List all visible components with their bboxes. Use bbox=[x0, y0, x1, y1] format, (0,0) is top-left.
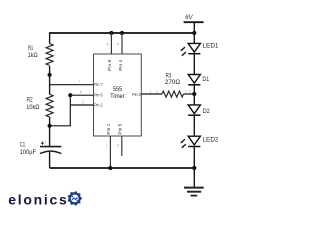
wire LED1 to D1 bbox=[193, 54, 195, 75]
svg-text:R1: R1 bbox=[28, 45, 33, 52]
svg-text:1kΩ: 1kΩ bbox=[28, 52, 38, 59]
svg-text:-: - bbox=[195, 98, 196, 102]
node junction pin8 stub bbox=[109, 31, 113, 35]
diode D1 bbox=[188, 65, 209, 93]
svg-text:Pin 1: Pin 1 bbox=[106, 123, 112, 134]
node junction pin4 stub bbox=[120, 31, 124, 35]
wire R2 to C1 bbox=[49, 117, 51, 146]
resistor R3 bbox=[150, 72, 187, 97]
pin 5 stub bbox=[117, 123, 123, 156]
svg-text:555: 555 bbox=[113, 86, 123, 93]
svg-text:-: - bbox=[41, 158, 42, 162]
node junction R3 / right column bbox=[192, 92, 196, 96]
wire pin6 bbox=[70, 94, 93, 96]
svg-text:1: 1 bbox=[156, 89, 158, 93]
wire left column top bbox=[49, 32, 51, 43]
svg-text:6: 6 bbox=[80, 90, 82, 94]
op-amp U1 555 timer box bbox=[94, 54, 142, 136]
svg-text:270Ω: 270Ω bbox=[165, 79, 180, 86]
svg-text:1: 1 bbox=[150, 89, 152, 93]
wire LED2 to bottom rail bbox=[193, 147, 195, 169]
svg-text:Pin 5: Pin 5 bbox=[118, 123, 124, 134]
LED LED1 bbox=[180, 38, 219, 57]
svg-text:8: 8 bbox=[107, 43, 109, 47]
svg-text:1: 1 bbox=[106, 144, 108, 148]
node junction top rail / power bbox=[192, 31, 196, 35]
svg-text:5: 5 bbox=[117, 144, 119, 148]
resistor R1 bbox=[28, 44, 53, 66]
svg-text:2: 2 bbox=[189, 90, 191, 94]
wire bottom rail bbox=[50, 167, 195, 169]
svg-text:D1: D1 bbox=[202, 76, 209, 83]
svg-text:Timer: Timer bbox=[110, 93, 125, 100]
svg-text:6V: 6V bbox=[185, 15, 193, 21]
diode D2 bbox=[188, 98, 210, 116]
svg-text:Pin 2: Pin 2 bbox=[94, 103, 103, 109]
svg-text:Pin 6: Pin 6 bbox=[94, 93, 103, 99]
wire D1 to D2 bbox=[193, 85, 195, 105]
pin 7 label bbox=[79, 80, 103, 89]
svg-text:R2: R2 bbox=[27, 97, 33, 104]
wire R2 junction to pin6/pin2 bbox=[50, 95, 71, 126]
wire pin7 branch bbox=[50, 84, 94, 86]
svg-text:-: - bbox=[195, 65, 196, 69]
wire C1 to bottom rail bbox=[49, 152, 51, 168]
svg-text:C1: C1 bbox=[20, 142, 26, 149]
node junction pin1 / bottom rail bbox=[108, 166, 112, 170]
svg-text:-: - bbox=[190, 130, 191, 134]
svg-text:Pin 4: Pin 4 bbox=[118, 60, 124, 71]
svg-text:1: 1 bbox=[45, 140, 47, 144]
wire D2 to LED2 bbox=[193, 115, 195, 136]
svg-text:100µF: 100µF bbox=[20, 149, 37, 156]
node junction pin6 bbox=[68, 93, 72, 97]
svg-text:-: - bbox=[190, 38, 191, 42]
pin 1 stub bbox=[106, 123, 112, 168]
pin 6 label bbox=[80, 90, 103, 99]
svg-text:7: 7 bbox=[79, 80, 81, 84]
svg-text:LED1: LED1 bbox=[203, 42, 219, 49]
pin 4 stub bbox=[117, 33, 124, 71]
pin 3 label bbox=[132, 92, 141, 98]
svg-text:4: 4 bbox=[117, 43, 119, 47]
svg-text:Pin 7: Pin 7 bbox=[94, 82, 103, 88]
wire top rail bbox=[50, 32, 195, 34]
svg-text:Pin 3: Pin 3 bbox=[132, 92, 141, 98]
node junction R2 bottom bbox=[48, 124, 52, 128]
wire pin3 to R3 bbox=[141, 93, 162, 95]
node junction bottom rail / ground bbox=[192, 166, 196, 170]
svg-text:2: 2 bbox=[185, 89, 187, 93]
capacitor C1 bbox=[20, 140, 62, 161]
svg-text:elonics: elonics bbox=[8, 192, 68, 208]
pin 8 stub bbox=[107, 33, 114, 71]
svg-text:2: 2 bbox=[82, 100, 84, 104]
svg-text:LED2: LED2 bbox=[203, 136, 219, 143]
node junction R1/R2 bbox=[48, 73, 52, 77]
svg-text:10kΩ: 10kΩ bbox=[26, 104, 39, 111]
ground bbox=[184, 168, 204, 196]
svg-text:D2: D2 bbox=[203, 108, 211, 115]
svg-text:Pin 8: Pin 8 bbox=[107, 60, 113, 71]
pin 2 label bbox=[82, 100, 102, 108]
LED LED2 bbox=[180, 130, 219, 148]
wire R1 to R2 bbox=[49, 66, 51, 94]
wire R3 to right column bbox=[184, 93, 195, 95]
resistor R2 bbox=[26, 94, 53, 117]
wire right column top bbox=[193, 33, 195, 43]
power symbol 6V bbox=[184, 15, 204, 33]
elonics logo bbox=[8, 191, 82, 207]
wire pin2 bbox=[70, 104, 93, 106]
